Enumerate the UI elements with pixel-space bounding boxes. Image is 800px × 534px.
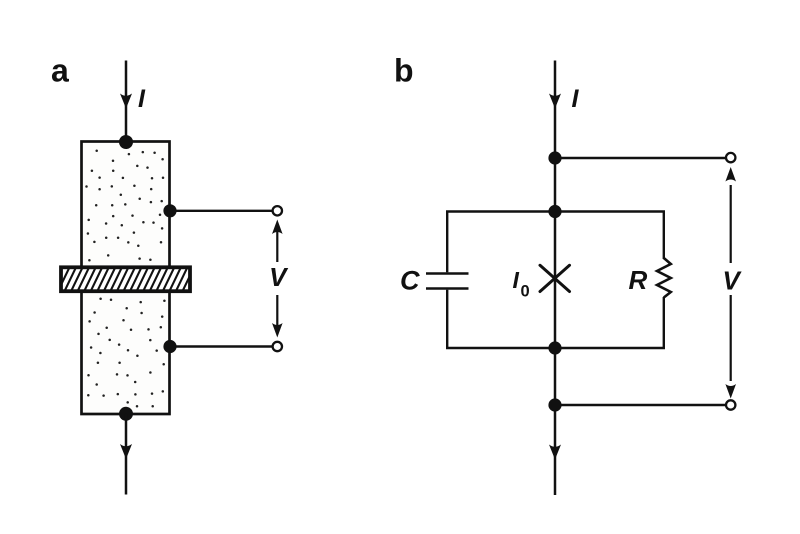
terminal: lower voltage terminal (b): [726, 400, 735, 409]
wire: resistor branch lower segment (b): [663, 297, 665, 348]
svg-text:R: R: [629, 265, 648, 295]
capacitor C plates (b): [426, 274, 469, 289]
arrow: V upper arrow (a): [276, 232, 278, 262]
wire: top current lead (a): [125, 61, 128, 143]
wire: upper voltage lead (b): [555, 157, 726, 159]
wire: bottom current lead (a): [125, 414, 128, 495]
svg-text:V: V: [723, 266, 743, 296]
wire: main vertical branch (b): [554, 61, 557, 496]
wire: parallel loop bottom (b): [446, 347, 665, 349]
barrier: hatched tunnel layer (a): [58, 267, 207, 291]
wire: upper voltage lead (a): [170, 210, 273, 212]
svg-text:I: I: [513, 267, 520, 293]
node: loop top junction dot (b): [548, 205, 561, 218]
svg-text:b: b: [394, 53, 414, 89]
terminal: upper voltage terminal (a): [273, 206, 282, 215]
node: upper voltage tap dot (b): [548, 151, 561, 164]
wire: resistor branch upper segment (b): [663, 212, 665, 260]
electrode: stippled superconductor block (a): [82, 142, 170, 415]
svg-text:V: V: [269, 262, 289, 292]
svg-text:a: a: [51, 53, 69, 89]
node: bottom electrode contact dot (a): [119, 407, 133, 421]
arrowhead: current I leaving (b): [549, 445, 561, 460]
node: lower voltage tap dot (a): [163, 340, 176, 353]
node: upper voltage tap dot (a): [163, 204, 176, 217]
resistor R zigzag (b): [657, 258, 671, 298]
svg-text:I: I: [572, 85, 580, 113]
arrow: V lower arrow (a): [276, 295, 278, 325]
arrowhead: current I entering (b): [549, 94, 561, 109]
wire: lower voltage lead (b): [555, 404, 726, 406]
svg-text:C: C: [400, 266, 420, 296]
node: top electrode contact dot (a): [119, 135, 133, 149]
svg-text:0: 0: [521, 283, 530, 301]
arrow: V measurement upper arrow (b): [730, 185, 732, 263]
arrow: V measurement lower arrow (b): [730, 295, 732, 381]
wire: parallel loop top (b): [446, 210, 665, 212]
wire: capacitor branch upper segment (b): [446, 212, 448, 273]
wire: lower voltage lead (a): [170, 345, 273, 347]
wire: capacitor branch lower segment (b): [446, 290, 448, 348]
node: loop bottom junction dot (b): [548, 341, 561, 354]
node: lower voltage tap dot (b): [548, 398, 561, 411]
stipple dots inside electrode (a): [85, 149, 165, 407]
terminal: upper voltage terminal (b): [726, 153, 735, 162]
arrowhead: current I leaving (a): [120, 444, 132, 459]
svg-text:I: I: [138, 85, 146, 113]
josephson junction X symbol I0 (b): [540, 265, 570, 291]
arrowhead: current I entering (a): [120, 94, 132, 109]
terminal: lower voltage terminal (a): [273, 342, 282, 351]
